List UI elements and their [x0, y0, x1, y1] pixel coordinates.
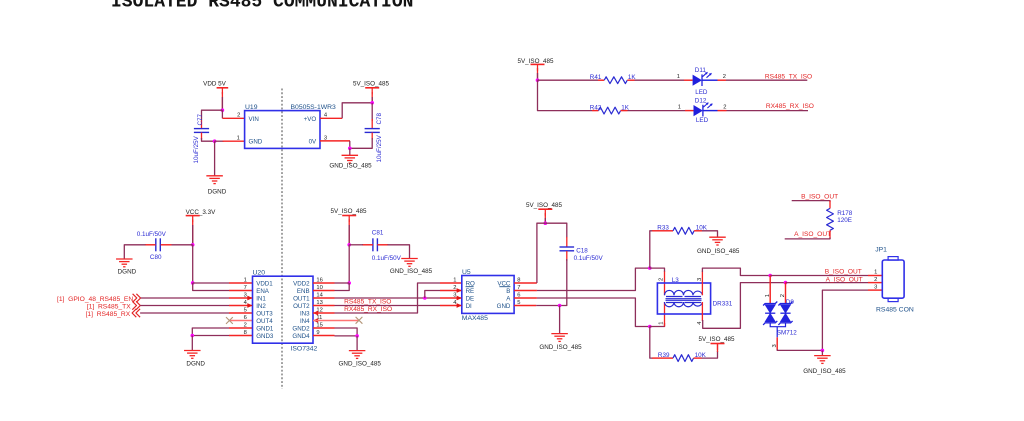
svg-text:GND_ISO_485: GND_ISO_485: [329, 162, 372, 169]
node junction C77/U19 GND: [213, 139, 217, 143]
svg-text:A_ISO_OUT: A_ISO_OUT: [826, 276, 863, 283]
svg-text:2: 2: [244, 323, 247, 329]
wire R178 to A_ISO_OUT stub: [829, 230, 831, 239]
capacitor C80 0.1uF/50V: [137, 231, 167, 261]
rs485 transceiver U5 MAX485: [462, 269, 514, 322]
wire OUT2 to DI (RX485_RX_ISO): [313, 305, 335, 307]
node junction VDD1/ENA: [191, 281, 195, 285]
resistor R42 1K: [590, 105, 630, 114]
svg-text:5V_ISO_485: 5V_ISO_485: [330, 208, 367, 215]
svg-text:U19: U19: [245, 104, 258, 111]
U20 input arrows IN1 IN2: [247, 296, 252, 301]
wire R33 to GND_ISO_485: [694, 230, 702, 232]
ground GND_ISO_485 (C81): [390, 259, 433, 276]
wire C18 bottom to GND node: [566, 251, 568, 261]
svg-text:VDD 5V: VDD 5V: [203, 81, 227, 88]
resistor R33 10K: [657, 224, 708, 234]
resistor R39 10K: [658, 352, 707, 362]
wire +VO pin 4 to 5V_ISO_485: [320, 117, 342, 119]
isolation boundary dashed line: [281, 89, 283, 390]
svg-text:+VO: +VO: [304, 116, 317, 123]
wire GND4 pin 9: [313, 335, 335, 337]
node junction B/D9 pin1: [768, 274, 772, 278]
wire junction down to R42: [538, 80, 593, 110]
node junction 5V/C18: [544, 221, 548, 225]
U5 input arrows RE DE DI: [457, 288, 462, 293]
wire D9 pin 3 to GND: [776, 337, 778, 350]
svg-text:DGND: DGND: [118, 268, 137, 275]
svg-text:10uF/25V: 10uF/25V: [376, 134, 383, 162]
ground DGND (C80): [116, 259, 137, 275]
wire 5V_ISO stem: [371, 92, 373, 103]
svg-text:B: B: [506, 288, 510, 295]
led D12: [694, 97, 713, 124]
svg-text:[1] RS485_RX: [1] RS485_RX: [86, 311, 131, 318]
wire junction to L3 pin 1: [650, 323, 665, 327]
wire 5V_ISO stem (U20): [348, 219, 350, 245]
wire L3 pin 4 to A_ISO_OUT: [701, 302, 703, 321]
svg-text:DE: DE: [466, 295, 475, 302]
svg-text:C81: C81: [372, 229, 384, 236]
svg-text:2: 2: [780, 294, 786, 297]
svg-text:SM712: SM712: [777, 329, 797, 336]
svg-text:0.1uF/50V: 0.1uF/50V: [574, 255, 604, 262]
tvs diode D9 SM712: [763, 299, 797, 337]
svg-text:RS485_TX_ISO: RS485_TX_ISO: [765, 73, 812, 80]
svg-text:GND_ISO_485: GND_ISO_485: [539, 344, 582, 351]
wire IN3 from RO: [313, 312, 335, 314]
svg-text:1: 1: [244, 278, 247, 284]
svg-text:D11: D11: [695, 67, 707, 74]
svg-text:2: 2: [453, 285, 456, 291]
svg-text:5: 5: [244, 308, 247, 314]
power flag 5V_ISO_485 (LED): [517, 58, 554, 71]
node junction VCC/C80: [191, 243, 195, 247]
wire TX to IN2: [140, 305, 229, 307]
svg-text:1: 1: [659, 322, 665, 325]
wire junction to C78: [371, 103, 373, 121]
no-connect IN4 pin 11: [313, 320, 359, 322]
wire JP1 pin 3 to GND: [868, 289, 882, 291]
svg-text:120E: 120E: [837, 217, 852, 224]
svg-text:DI: DI: [466, 303, 472, 310]
wire GND1 pin 2 to DGND: [192, 328, 229, 336]
svg-text:C78: C78: [376, 112, 383, 124]
svg-text:1: 1: [237, 136, 240, 142]
wire A line to JP1 pin 2: [786, 282, 869, 284]
node junction GND/C18: [558, 304, 562, 308]
svg-text:DGND: DGND: [186, 360, 205, 367]
U20 input arrows IN3 IN4: [313, 311, 318, 316]
wire to VDD2 pin 16: [335, 282, 350, 284]
svg-text:3: 3: [772, 344, 778, 347]
svg-text:0V: 0V: [309, 138, 317, 145]
wire VCC stem: [192, 220, 194, 245]
svg-text:GND4: GND4: [292, 333, 310, 340]
node junction A/D9 pin2: [784, 281, 788, 285]
wire C80 right to VCC rail: [161, 244, 172, 246]
node junction GND1/GND3: [191, 334, 195, 338]
svg-text:A_ISO_OUT: A_ISO_OUT: [794, 231, 831, 238]
node junction R41/R42: [536, 78, 540, 82]
svg-text:2: 2: [723, 74, 726, 80]
wire GND pin 1: [215, 140, 224, 142]
svg-text:GND3: GND3: [256, 333, 274, 340]
svg-text:B_ISO_OUT: B_ISO_OUT: [825, 269, 862, 276]
power flag 5V_ISO_485 (U20): [330, 208, 367, 222]
wire R42 to D12: [621, 110, 628, 112]
capacitor C81 0.1uF/50V: [372, 229, 402, 262]
svg-text:MAX485: MAX485: [462, 315, 488, 322]
wire to ENA pin 7: [193, 283, 229, 291]
wire C81 right to GND_ISO: [377, 244, 388, 246]
power flag 5V_ISO_485 (R39): [698, 336, 735, 350]
svg-text:GND_ISO_485: GND_ISO_485: [339, 360, 382, 367]
ground GND_ISO_485 (U20): [339, 336, 382, 368]
svg-text:6: 6: [244, 315, 247, 321]
wire junction to L3 pin 2: [650, 268, 665, 272]
wire B junction up to R33: [650, 231, 653, 268]
wire junction to C77: [202, 110, 223, 120]
ground GND_ISO_485 (R33): [697, 237, 740, 255]
power flag 5V_ISO_485 (U19): [353, 81, 390, 95]
svg-text:JP1: JP1: [875, 247, 887, 254]
svg-text:3: 3: [244, 293, 247, 299]
node junction VDD2/ENB: [347, 281, 351, 285]
wire GND pin 5: [514, 305, 536, 307]
wire A pin 6 to L3 pin 1: [514, 297, 537, 299]
wire RX to OUT3: [140, 312, 229, 314]
dc-dc converter U19 B0505S-1WR3: [245, 104, 336, 148]
wire D11 to RS485_TX_ISO: [702, 79, 718, 81]
svg-text:2: 2: [723, 104, 726, 110]
svg-text:DGND: DGND: [208, 189, 227, 196]
svg-text:C18: C18: [576, 247, 588, 254]
wire to DGND: [214, 141, 216, 176]
wire EN to IN1: [141, 297, 229, 299]
wire D9 pin 1 lead: [769, 276, 771, 304]
svg-text:GND2: GND2: [292, 325, 310, 332]
svg-text:ISO7342: ISO7342: [291, 345, 318, 352]
resistor R178 120E: [827, 208, 853, 230]
wire to VDD1 pin 1: [193, 282, 229, 284]
power flag VDD 5V: [203, 81, 228, 95]
svg-text:7: 7: [244, 285, 247, 291]
wire C81 left: [362, 244, 373, 246]
svg-text:LED: LED: [695, 89, 708, 96]
node junction D9/JP1 ground: [821, 349, 825, 353]
led D11: [693, 67, 712, 96]
svg-text:GND_ISO_485: GND_ISO_485: [390, 268, 433, 275]
svg-text:IN3: IN3: [300, 310, 310, 317]
svg-text:L3: L3: [672, 277, 680, 284]
node junction GND2/GND4: [355, 334, 359, 338]
wire D12 to RX485_RX_ISO: [703, 110, 718, 112]
wire junction to C18: [545, 223, 567, 237]
svg-text:OUT3: OUT3: [256, 310, 273, 317]
ground GND_ISO_485 (U5): [539, 306, 582, 352]
svg-text:GND_ISO_485: GND_ISO_485: [803, 368, 846, 375]
wire B pin 7 to L3 pin 2: [514, 290, 537, 292]
capacitor C18 0.1uF/50V: [560, 247, 604, 262]
resistor R41 1K: [590, 74, 637, 83]
wire VCC pin 8 riser: [514, 282, 537, 284]
wire OUT1 to DE/RE (RS485_TX_ISO): [313, 297, 335, 299]
wire VCC rail to U20 VDD1/ENA: [192, 245, 194, 283]
wire B line to JP1 pin 1: [770, 275, 868, 277]
wire 0V pin 3: [320, 140, 350, 142]
svg-text:B_ISO_OUT: B_ISO_OUT: [801, 194, 838, 201]
svg-text:GND: GND: [497, 303, 511, 310]
no-connect OUT4 pin 6: [229, 320, 253, 322]
svg-text:OUT4: OUT4: [256, 318, 273, 325]
capacitor C78 10uF/25V: [365, 112, 384, 162]
svg-text:U20: U20: [253, 270, 266, 277]
svg-text:R41: R41: [590, 74, 602, 81]
svg-text:LED: LED: [696, 117, 709, 124]
node junction C78/GND_ISO_485: [348, 147, 352, 151]
svg-text:1: 1: [678, 104, 681, 110]
svg-text:RS485_TX_ISO: RS485_TX_ISO: [344, 299, 391, 306]
wire L3 pin 3 to B_ISO_OUT: [701, 271, 703, 295]
power flag 5V_ISO_485 (U5): [526, 202, 563, 216]
wire RE branch: [425, 291, 440, 299]
svg-text:[1] RS485_TX: [1] RS485_TX: [87, 304, 131, 311]
common-mode choke L3 DR331: [657, 277, 732, 314]
wire 5V stem (U5): [544, 213, 546, 223]
svg-text:R39: R39: [658, 352, 670, 359]
off-page connector GPIO_48_RS485_EN: [57, 294, 141, 303]
node junction VDD/C77: [221, 108, 225, 112]
node junction 5V_ISO/C78: [370, 101, 374, 105]
svg-text:2: 2: [659, 278, 665, 281]
svg-text:OUT2: OUT2: [293, 303, 310, 310]
wire to ENB pin 10: [335, 283, 350, 291]
U20 pin numbers left: [244, 278, 248, 337]
svg-text:[1] GPIO_48_RS485_EN: [1] GPIO_48_RS485_EN: [57, 296, 133, 303]
svg-text:GND1: GND1: [256, 325, 274, 332]
U5 pin numbers: [453, 278, 520, 307]
svg-text:1: 1: [765, 294, 771, 297]
svg-text:D12: D12: [695, 97, 707, 104]
off-page connector RS485_TX: [87, 301, 140, 310]
wire D9 pin 2 lead: [785, 283, 787, 304]
svg-text:3: 3: [453, 293, 456, 299]
wire GND2 pin 15: [313, 327, 335, 329]
svg-text:B0505S-1WR3: B0505S-1WR3: [291, 104, 337, 111]
node junction A/R39/L3: [648, 325, 652, 329]
svg-text:VDD1: VDD1: [256, 280, 273, 287]
svg-text:VDD2: VDD2: [293, 280, 310, 287]
svg-text:RX485_RX_ISO: RX485_RX_ISO: [766, 103, 814, 110]
svg-text:0.1uF/50V: 0.1uF/50V: [137, 231, 167, 238]
wire C78 bottom to GND_ISO node: [371, 133, 373, 140]
svg-text:5V_ISO_485: 5V_ISO_485: [353, 81, 390, 88]
node junction 5V/C81: [347, 243, 351, 247]
svg-text:8: 8: [244, 330, 247, 336]
svg-text:C77: C77: [197, 113, 204, 125]
svg-text:R42: R42: [590, 105, 602, 112]
svg-text:U5: U5: [462, 269, 471, 276]
svg-text:1: 1: [677, 74, 680, 80]
wire VDD5V stem: [221, 92, 223, 110]
wire 5V rail to VDD2/ENB: [348, 245, 350, 283]
off-page connector RS485_RX: [86, 309, 141, 318]
node junction B/R33/L3: [648, 266, 652, 270]
svg-text:1: 1: [453, 278, 456, 284]
wire R41 to D11: [627, 79, 634, 81]
svg-text:D9: D9: [786, 299, 795, 306]
svg-text:2: 2: [874, 277, 877, 283]
wire junction to R41: [538, 79, 599, 81]
svg-text:IN1: IN1: [256, 295, 266, 302]
connector JP1 RS485 CON: [875, 247, 914, 314]
capacitor C77 10uF/25V: [193, 113, 209, 163]
svg-text:5V_ISO_485: 5V_ISO_485: [698, 336, 735, 343]
ground DGND (U20): [184, 336, 205, 368]
svg-text:VIN: VIN: [249, 116, 259, 123]
svg-text:GND: GND: [249, 138, 263, 145]
ground GND_ISO_485 (U19): [329, 148, 372, 169]
svg-text:RS485 CON: RS485 CON: [876, 307, 914, 314]
svg-text:2: 2: [237, 113, 240, 119]
svg-text:10uF/25V: 10uF/25V: [193, 135, 200, 163]
wire 5V_ISO stem to junction: [537, 68, 539, 80]
svg-text:GND_ISO_485: GND_ISO_485: [697, 248, 740, 255]
wire A junction down to R39: [650, 327, 653, 359]
svg-text:OUT1: OUT1: [293, 295, 310, 302]
U20 pin numbers right: [316, 278, 323, 337]
svg-text:RX485_RX_ISO: RX485_RX_ISO: [344, 306, 392, 313]
digital isolator U20 ISO7342: [253, 270, 318, 353]
svg-text:ENA: ENA: [256, 288, 270, 295]
svg-text:IN4: IN4: [300, 318, 310, 325]
power flag VCC_3.3V: [186, 209, 217, 222]
svg-text:ISOLATED RS485 COMMUNICATION: ISOLATED RS485 COMMUNICATION: [111, 0, 413, 13]
wire VIN pin 2: [221, 110, 223, 118]
wire C80 left to DGND: [145, 244, 156, 246]
svg-text:3: 3: [874, 285, 877, 291]
ground DGND (U19): [206, 176, 226, 196]
node junction DE/RE: [423, 296, 427, 300]
svg-text:ENB: ENB: [297, 288, 310, 295]
svg-text:1: 1: [874, 270, 877, 276]
svg-text:0.1uF/50V: 0.1uF/50V: [372, 255, 402, 262]
ground GND_ISO_485 (JP1): [803, 350, 846, 375]
svg-text:C80: C80: [150, 254, 162, 261]
svg-text:DR331: DR331: [713, 300, 733, 307]
svg-text:5V_ISO_485: 5V_ISO_485: [526, 202, 563, 209]
svg-text:R178: R178: [837, 210, 853, 217]
svg-text:R33: R33: [657, 224, 669, 231]
wire B_ISO_OUT stub to R178: [792, 201, 830, 202]
wire GND3 pin 8: [192, 335, 229, 337]
svg-text:RE: RE: [466, 288, 475, 295]
wire C77 bottom to GND node: [201, 133, 203, 140]
wire R39 to 5V_ISO_485: [694, 357, 702, 359]
svg-text:IN2: IN2: [256, 303, 266, 310]
